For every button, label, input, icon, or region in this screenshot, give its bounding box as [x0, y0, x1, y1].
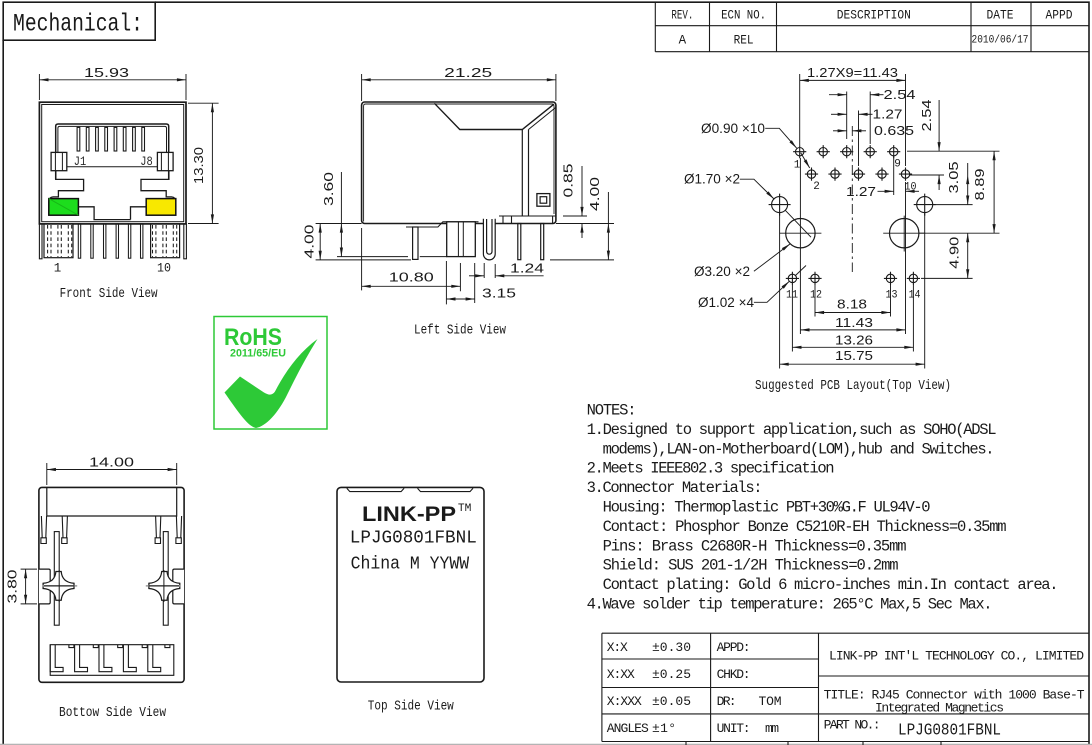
svg-text:3.80: 3.80 [6, 569, 20, 603]
svg-text:Pins: Brass C2680R-H Thickness: Pins: Brass C2680R-H Thickness=0.35mm [603, 537, 907, 555]
svg-text:13.26: 13.26 [835, 333, 873, 347]
svg-text:13: 13 [886, 290, 898, 302]
front lower stepped profile right [131, 171, 176, 220]
svg-text:8.89: 8.89 [973, 168, 987, 200]
right pin block with hidden pins [151, 224, 180, 258]
svg-text:modems),LAN-on-Motherboard(LOM: modems),LAN-on-Motherboard(LOM),hub and … [603, 440, 995, 458]
svg-text:12: 12 [810, 290, 822, 302]
leader label dia 1.70 x2 [684, 172, 811, 238]
svg-text:1: 1 [794, 160, 801, 172]
dimension 21.25 [362, 74, 556, 101]
svg-text:DATE: DATE [987, 9, 1014, 23]
svg-text:4.90: 4.90 [948, 237, 962, 269]
top view body [337, 487, 484, 682]
mount holes row (11,12,13,14) dia 1.02 [786, 272, 920, 285]
svg-text:4.00: 4.00 [588, 177, 602, 211]
dimension 15.75 [780, 363, 925, 365]
svg-text:10: 10 [157, 262, 171, 276]
dimension 0.635 [833, 130, 866, 132]
leader label dia 0.90 x10 [701, 121, 810, 168]
left view shield lip strip [406, 222, 479, 227]
hole labels 11 12 13 14 [786, 290, 921, 302]
svg-text:PART NO.:: PART NO.: [824, 717, 881, 732]
svg-text:China M YYWW: China M YYWW [351, 554, 470, 574]
leader label dia 1.02 x4 [698, 266, 806, 310]
bottom view solder strip right [163, 532, 168, 626]
dimension 13.30 [188, 103, 219, 223]
svg-text:1.27X9=11.43: 1.27X9=11.43 [807, 66, 898, 80]
dimension 2.54 top [829, 92, 884, 145]
middle solder pins [78, 224, 143, 258]
svg-text:TM: TM [458, 503, 472, 515]
svg-text:4.00: 4.00 [303, 224, 317, 258]
svg-text:ECN NO.: ECN NO. [721, 9, 766, 23]
8 contact teeth [77, 127, 144, 151]
svg-text:2.54: 2.54 [884, 88, 916, 102]
svg-text:LINK-PP INT'L TECHNOLOGY CO.,: LINK-PP INT'L TECHNOLOGY CO., LIMITED [829, 649, 1084, 664]
svg-text:REV.: REV. [671, 9, 693, 23]
extension lines for bottom dims [780, 158, 925, 369]
big hole left dia 3.20 [779, 219, 821, 248]
svg-text:3.05: 3.05 [947, 161, 961, 193]
svg-text:DESCRIPTION: DESCRIPTION [837, 9, 911, 23]
RoHS box [214, 317, 327, 430]
svg-text:1.27: 1.27 [846, 185, 876, 199]
LED hole right dia 1.70 [914, 194, 936, 216]
svg-text:15.75: 15.75 [835, 349, 873, 363]
shelf line under J1/J8 [67, 166, 158, 168]
dimension 2.54 right vertical [907, 100, 1000, 190]
svg-text:2011/65/EU: 2011/65/EU [230, 348, 286, 360]
svg-text:14: 14 [909, 290, 921, 302]
svg-text:Ø1.70 ×2: Ø1.70 ×2 [684, 172, 740, 187]
svg-text:Suggested PCB Layout(Top View): Suggested PCB Layout(Top View) [755, 378, 951, 394]
dimension 10.80 [362, 228, 461, 291]
bottom view star post right [146, 570, 181, 602]
big hole right dia 3.20 [883, 216, 925, 252]
dimension 0.85 [581, 166, 583, 238]
svg-text:2010/06/17: 2010/06/17 [972, 35, 1029, 47]
bottom view side notch right [173, 569, 184, 604]
svg-text:10.80: 10.80 [389, 271, 434, 285]
dimension 3.80 [21, 569, 37, 604]
svg-text:15.93: 15.93 [84, 66, 129, 80]
dimension 8.89 [919, 151, 1000, 233]
svg-text:LINK-PP: LINK-PP [362, 503, 456, 526]
dimension 1.27 top [831, 111, 873, 167]
pin holes row 2 (2,4,6,8,10) [805, 168, 912, 181]
svg-text:0.85: 0.85 [562, 163, 576, 197]
svg-text:A: A [679, 34, 687, 48]
svg-text:Top Side View: Top Side View [368, 698, 454, 714]
dimension 4.00 left [319, 224, 321, 260]
dimension 11.43 [800, 329, 905, 331]
dimension 1.27 middle [878, 157, 920, 196]
svg-text:0.635: 0.635 [874, 124, 914, 138]
svg-text:REL: REL [734, 34, 754, 48]
svg-text:1: 1 [54, 262, 62, 276]
svg-text:3.Connector Materials:: 3.Connector Materials: [587, 479, 763, 497]
left pin block with hidden pins [44, 224, 73, 258]
bottom view latch feet tabs [41, 516, 182, 544]
svg-text:Front Side View: Front Side View [60, 286, 158, 302]
svg-text:8.18: 8.18 [837, 298, 867, 312]
reference extension lines left view bottom [316, 216, 614, 260]
svg-text:Housing: Thermoplastic PBT+30%: Housing: Thermoplastic PBT+30%G.F UL94V-… [603, 499, 931, 517]
dimension 3.05 [933, 163, 973, 205]
dimension 4.00 right [607, 192, 609, 260]
svg-text:21.25: 21.25 [444, 66, 492, 80]
revision table [655, 2, 1089, 52]
svg-text:LPJG0801FBNL: LPJG0801FBNL [350, 528, 477, 548]
front view body outer shell [39, 102, 186, 224]
shield side tab right below body [184, 224, 187, 259]
left latch tab [51, 152, 67, 170]
left view front thin pin [413, 227, 418, 259]
right latch tab [157, 152, 173, 170]
svg-text:Ø0.90 ×10: Ø0.90 ×10 [701, 121, 765, 136]
bottom view body [39, 487, 184, 682]
dimension 3.60 [340, 172, 342, 257]
svg-text:Shield: SUS 201-1/2H Thickness: Shield: SUS 201-1/2H Thickness=0.2mm [603, 557, 899, 575]
bottom view top band [47, 487, 177, 516]
left view rear pins [518, 224, 544, 260]
svg-text:1.27: 1.27 [873, 107, 903, 121]
left view top visor chamfer [434, 103, 555, 216]
svg-text:13.30: 13.30 [192, 147, 206, 184]
svg-text:2.54: 2.54 [920, 99, 934, 131]
svg-text:2: 2 [813, 181, 820, 193]
svg-text:APPD:: APPD: [717, 640, 751, 655]
LED hole left dia 1.70 [769, 194, 791, 216]
left view body shell [362, 102, 556, 224]
svg-text:3.60: 3.60 [322, 172, 336, 206]
pin labels 1 2 9 10 [794, 159, 917, 194]
bottom view side notch left [39, 569, 50, 604]
dimension 15.93 [39, 74, 186, 100]
dimension 1.27X9=11.43 [800, 74, 906, 166]
svg-text:ANGLES±1°: ANGLES±1° [607, 721, 676, 736]
svg-text:1.24: 1.24 [510, 262, 544, 276]
shield side tab left below body [39, 224, 42, 259]
svg-text:UNIT:mm: UNIT:mm [717, 721, 780, 736]
svg-text:Mechanical:: Mechanical: [13, 10, 143, 39]
svg-text:Ø3.20 ×2: Ø3.20 ×2 [694, 264, 750, 279]
dimension 1.24 [469, 263, 544, 278]
pin holes row 1 (1,3,5,7,9) [793, 145, 900, 158]
title box "Mechanical:" [3, 2, 155, 40]
svg-text:1.Designed to support applicat: 1.Designed to support application,such a… [587, 421, 997, 439]
dimension 8.18 [815, 312, 891, 314]
svg-text:CHKD:: CHKD: [717, 667, 751, 682]
svg-text:Integrated Magnetics: Integrated Magnetics [875, 701, 1004, 716]
svg-text:NOTES:: NOTES: [587, 402, 637, 420]
svg-text:Contact: Phosphor Bonze C5210R: Contact: Phosphor Bonze C5210R-EH Thickn… [603, 518, 1007, 536]
svg-text:4.Wave solder tip temperature:: 4.Wave solder tip temperature: 265°C Max… [587, 596, 993, 614]
svg-text:11.43: 11.43 [835, 316, 873, 330]
front port opening outer [56, 124, 169, 179]
svg-text:Contact plating: Gold 6 micro-: Contact plating: Gold 6 micro-inches min… [603, 576, 1059, 594]
green LED window [49, 199, 79, 216]
svg-text:Bottow Side View: Bottow Side View [59, 705, 166, 721]
dimension 13.26 [792, 346, 913, 348]
svg-text:14.00: 14.00 [89, 455, 134, 469]
RoHS checkmark [225, 339, 318, 428]
front lower stepped profile left [49, 171, 131, 220]
bottom view star post left [42, 570, 77, 602]
svg-text:Left Side View: Left Side View [414, 323, 506, 339]
svg-text:Ø1.02 ×4: Ø1.02 ×4 [698, 295, 754, 310]
svg-text:LPJG0801FBNL: LPJG0801FBNL [898, 722, 1001, 741]
left view center solder block [447, 222, 476, 257]
leader label dia 3.20 x2 [694, 244, 790, 279]
left view small window square [537, 194, 550, 207]
bottom view solder strip left [54, 532, 59, 626]
vertical centerline dash-dot [851, 126, 853, 272]
yellow LED window [146, 199, 176, 216]
dimension 14.00 [47, 463, 177, 485]
dimension 4.90 [921, 233, 973, 278]
bottom view comb shield fingers [50, 645, 174, 676]
svg-text:3.15: 3.15 [482, 287, 516, 301]
top view edge notches [347, 488, 473, 491]
svg-text:9: 9 [894, 159, 901, 171]
svg-text:APPD: APPD [1046, 9, 1073, 23]
front port opening inner [58, 126, 167, 152]
left view bottom flange plate right [499, 216, 556, 224]
svg-text:2.Meets IEEE802.3 specificatio: 2.Meets IEEE802.3 specification [587, 460, 835, 478]
dimension 3.15 [446, 261, 474, 304]
title block grid [602, 633, 1089, 745]
left view EMI U-clip [483, 219, 495, 260]
